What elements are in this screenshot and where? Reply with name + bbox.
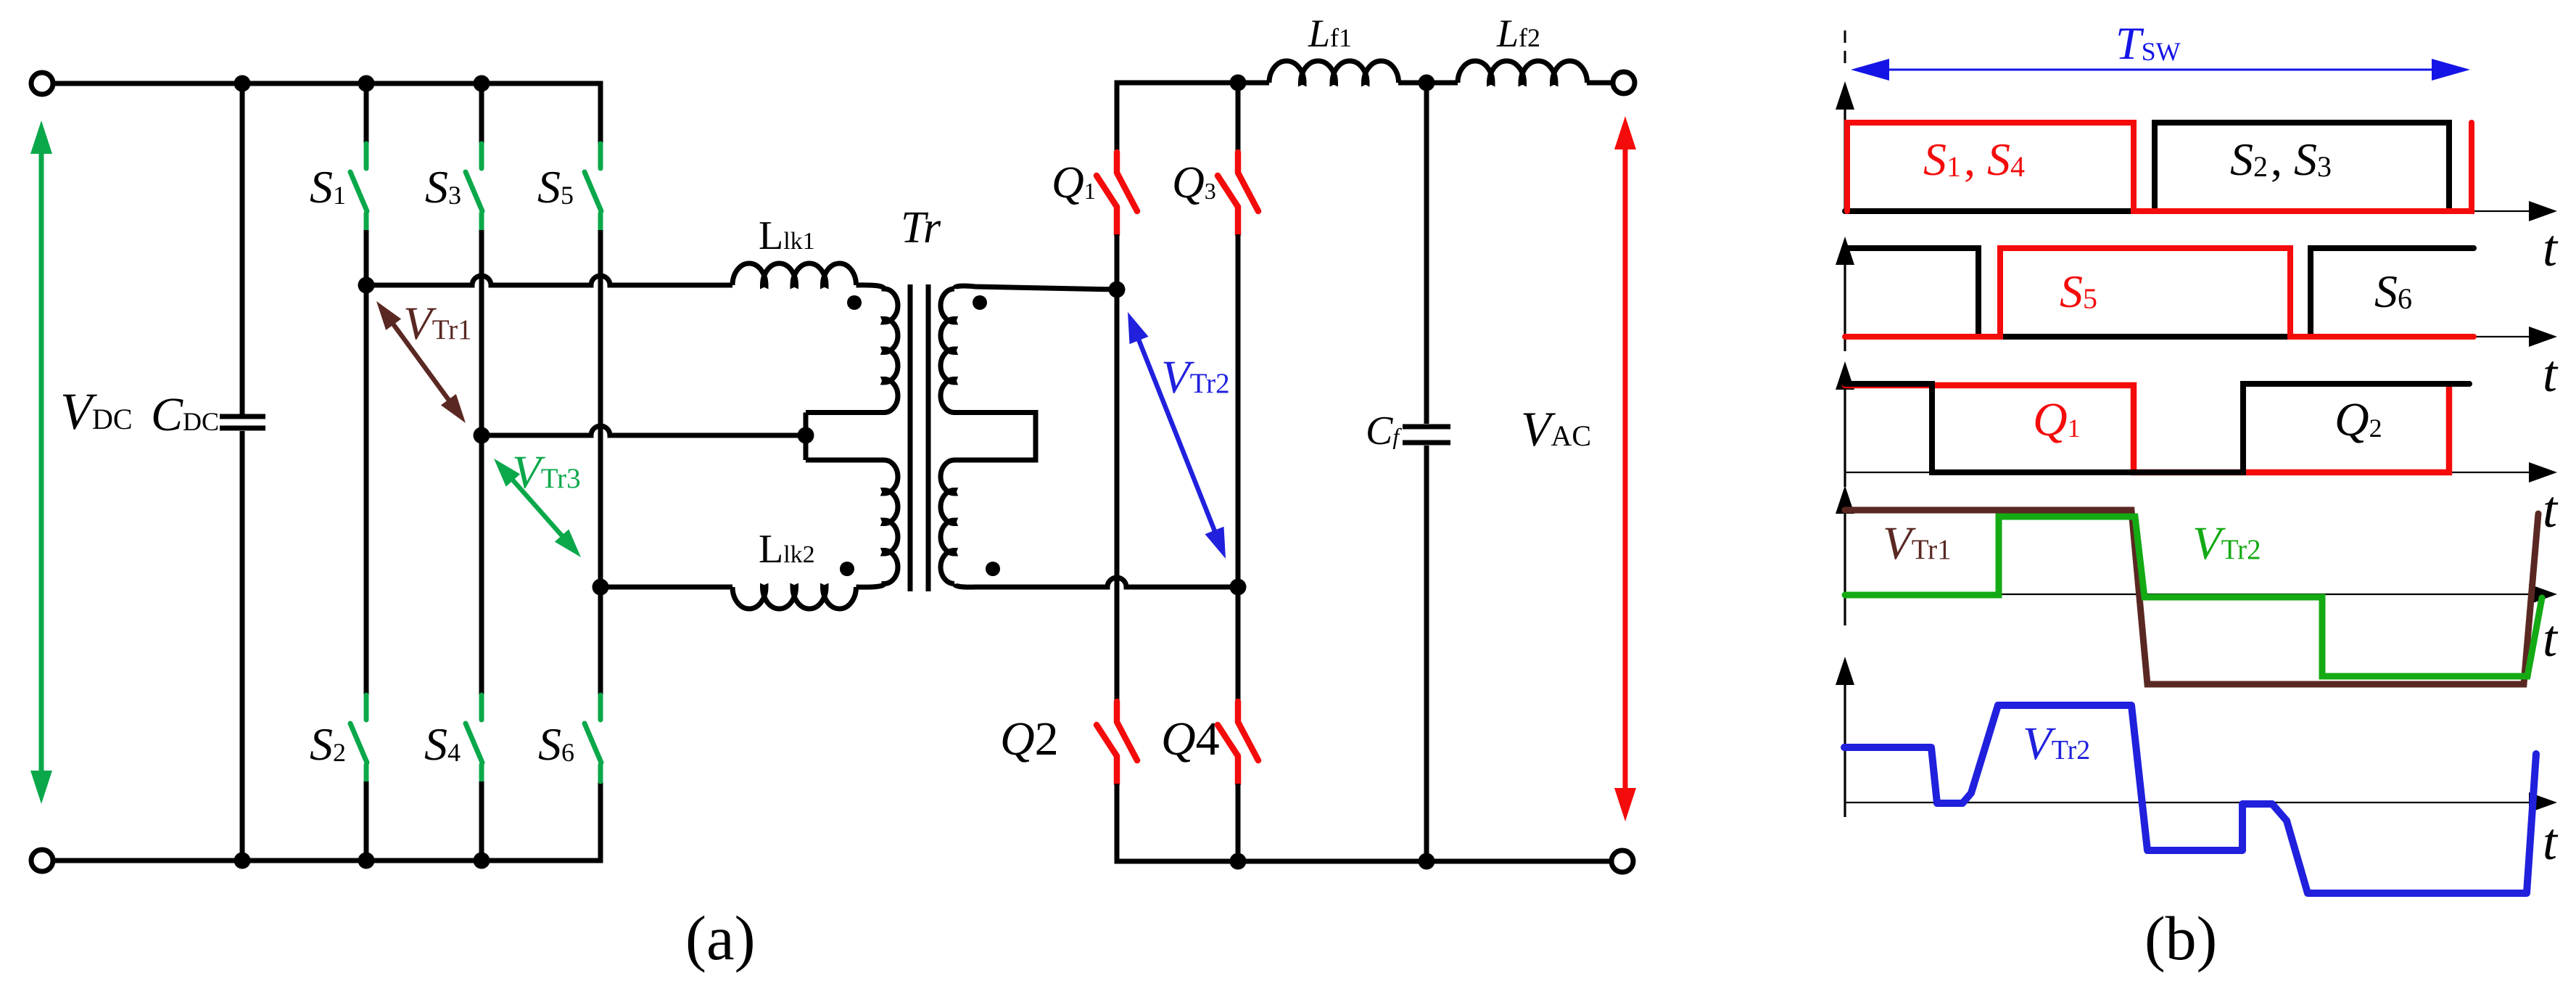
axis v line row5 [1844,683,1846,817]
axis t row4 [1845,594,2531,595]
wire S1 leg top [364,83,369,144]
junction primary center tap [798,427,814,444]
voltage arrow VTr2 [1128,312,1226,559]
polarity dot primary bottom [840,562,854,576]
capacitor Cf [1403,427,1450,443]
axis t row5 [1845,802,2531,803]
axis t arrowhead row1 [2529,201,2557,221]
dimension arrow TSW [1857,69,2464,71]
waveform S2,S3 gate (row1 black) [1845,123,2472,211]
voltage arrow VAC [1614,116,1636,821]
waveform Q2 gate (row3 black) [1845,384,2469,472]
junction bottom rail / Q4 leg [1230,853,1247,870]
transformer Tr primary bottom winding [806,460,898,587]
axis t row2 [1845,336,2531,337]
axis dashed vertical row1 [1844,30,1846,70]
voltage arrow VDC [30,120,52,804]
wire capacitor CDC leg upper [240,83,245,414]
svg-text:(b): (b) [2144,903,2217,973]
wire Q2 leg bottom and bottom rail corner [1117,784,1611,861]
wire S3-S4 leg middle [479,230,484,695]
axis t arrowhead row2 [2529,327,2557,347]
junction top rail / Q3 leg [1230,75,1247,91]
wire Cf leg lower [1424,446,1429,861]
switch S6 [585,695,601,781]
wire S3 leg top [479,83,484,144]
inductor Llk1 [732,263,856,285]
svg-text:Q4: Q4 [1161,713,1220,765]
axis t arrowhead row3 [2529,462,2557,483]
axis v line row3 [1844,387,1846,487]
inductor Lf2 [1458,61,1588,83]
junction bottom rail / S4 leg [474,853,490,869]
junction bottom rail / S2 leg [358,853,375,869]
junction bottom rail / CDC [234,853,251,869]
axis v arrowhead row5 [1836,657,1854,685]
wire Cf leg upper [1424,83,1429,424]
junction top rail / S3 leg [474,75,490,92]
inductor Lf1 [1269,61,1399,83]
svg-text:t: t [2543,480,2559,538]
junction node C (S5 leg / primary bottom wire) [593,579,609,596]
axis t row1 [1845,210,2531,212]
switch Q1 [1097,152,1137,234]
waveform VTr2 (row5 blue) [1844,705,2536,893]
svg-text:t: t [2543,345,2559,403]
wire S1-S2 leg middle [364,230,369,695]
transformer Tr core [910,284,928,591]
axis v line row1 [1844,106,1846,211]
wire node A to Llk1 [366,276,732,285]
switch Q3 [1218,152,1258,234]
transformer Tr secondary bottom winding [941,460,954,584]
wire S5-S6 leg middle [598,230,603,695]
wire top rail left [52,83,600,144]
switch S5 [585,144,601,230]
svg-text:t: t [2543,813,2559,871]
axis t row3 [1845,472,2531,473]
junction top rail / S1 leg [358,75,375,92]
wire Q3-Q4 leg middle [1236,234,1241,702]
axis v arrowhead row3 [1836,361,1854,390]
waveform S6 gate (row2 black) [1845,248,2474,337]
junction secondary top / Q1 leg [1109,282,1126,298]
junction top rail / Cf leg [1419,75,1435,91]
svg-text:Q2: Q2 [1000,713,1059,765]
wire S2 leg bottom [364,781,369,861]
transformer Tr primary top winding [806,285,898,413]
axis v arrowhead row1 [1836,81,1854,110]
switch S2 [350,695,367,781]
junction bottom rail / Cf leg [1419,853,1435,870]
waveform VTr2 (row4 green) [1845,517,2542,676]
polarity dot primary top [847,295,862,310]
wire node C to Llk2 [600,585,732,590]
wire top rail right segment 2 [1398,81,1458,86]
wire S4 leg bottom [479,781,484,861]
wire Q1-Q2 leg middle [1115,234,1120,702]
transformer Tr secondary top winding [941,289,954,413]
terminal AC minus (bottom-right) [1611,850,1633,872]
axis v line row4 [1844,512,1846,625]
terminal DC minus (bottom-left) [31,850,53,871]
axis v arrowhead row2 [1836,237,1854,265]
wire Q1 leg top and top rail corner [1117,83,1269,152]
switch Q2 [1097,702,1137,784]
wire secondary top to Q1 leg [954,286,1117,290]
voltage arrow VTr3 [494,459,581,557]
wire bottom rail left [52,781,600,861]
waveform Q1 gate (row3 red) [1845,385,2449,472]
switch S4 [466,695,482,781]
polarity dot secondary top [973,295,987,310]
svg-text:t: t [2543,219,2559,277]
axis v arrowhead row4 [1836,485,1854,514]
junction node A (S1 leg / primary top wire) [358,277,375,294]
terminal DC plus (top-left) [31,73,53,94]
terminal AC plus (top-right) [1613,72,1635,94]
axis v line row2 [1844,263,1846,351]
inductor Llk2 [732,587,856,609]
wire Q4 leg bottom [1236,784,1241,861]
capacitor CDC [220,416,265,428]
wire capacitor CDC leg lower [240,431,245,861]
junction top rail / CDC [234,75,251,92]
axis t arrowhead row5 [2529,792,2557,813]
waveform S1,S4 gate (row1 red) [1847,123,2472,211]
switch S3 [466,144,482,230]
polarity dot secondary bottom [986,562,1000,576]
wire Q3 leg top [1236,83,1241,152]
waveform VTr1 (row4 maroon) [1845,510,2538,684]
transformer Tr secondary series jog [954,413,1036,461]
transformer Tr primary center tap stub [804,413,809,461]
axis t arrowhead row4 [2529,584,2557,604]
switch S1 [350,144,367,230]
junction node B (S3 leg / center tap wire) [474,427,490,444]
waveform S5 gate (row2 red) [1845,248,2474,337]
svg-text:Tr: Tr [901,203,941,253]
voltage arrow VTr1 [376,301,466,423]
wire top rail right segment 3 [1587,81,1613,86]
wire node B to center tap [482,426,804,435]
switch Q4 [1218,702,1258,784]
svg-text:(a): (a) [685,903,756,973]
svg-text:t: t [2543,609,2559,668]
wire secondary bottom to Q3 leg (hop over Q1 leg) [954,578,1238,587]
junction secondary bottom / Q3 leg [1230,579,1247,596]
